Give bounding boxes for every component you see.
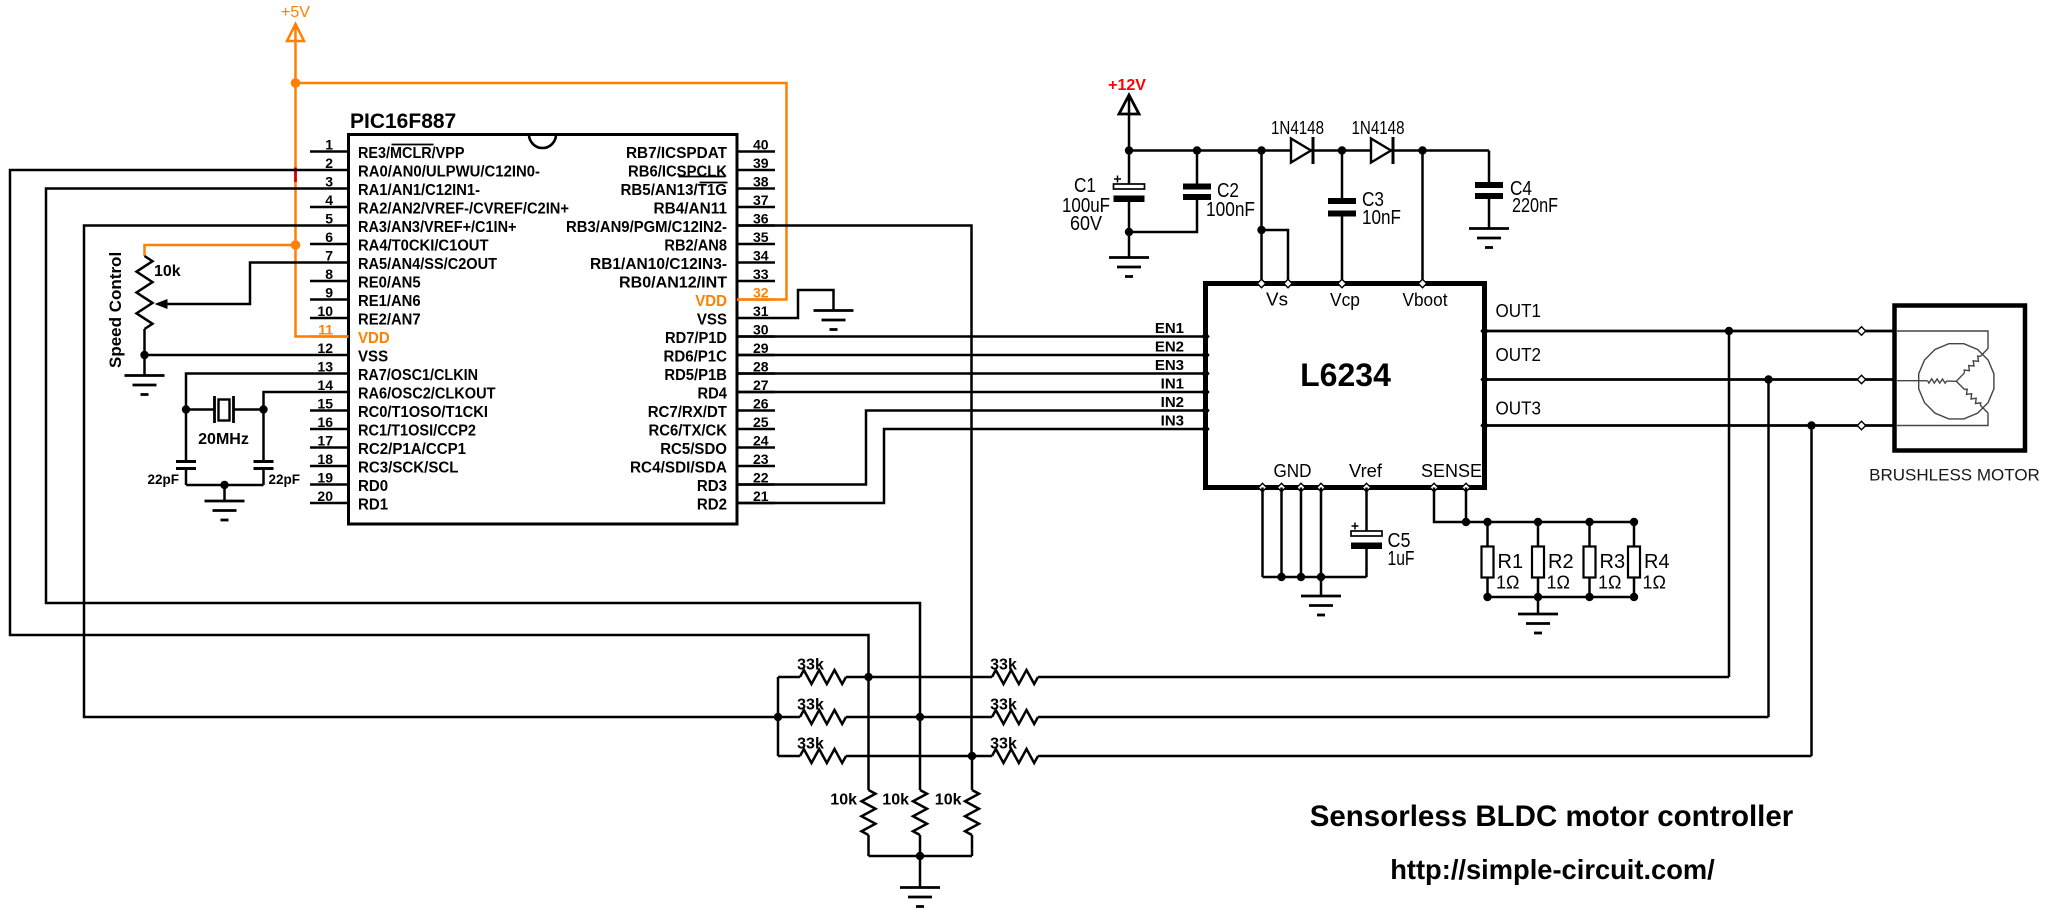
- svg-text:RC5/SDO: RC5/SDO: [660, 441, 727, 458]
- svg-text:RB3/AN9/PGM/C12IN2-: RB3/AN9/PGM/C12IN2-: [566, 219, 727, 236]
- svg-text:33k: 33k: [797, 736, 824, 753]
- svg-text:RA4/T0CKI/C1OUT: RA4/T0CKI/C1OUT: [358, 238, 489, 255]
- svg-text:1uF: 1uF: [1388, 548, 1415, 570]
- wire OSC1 pin 13: [186, 374, 310, 410]
- svg-text:+5V: +5V: [281, 4, 310, 21]
- svg-text:RB1/AN10/C12IN3-: RB1/AN10/C12IN3-: [590, 256, 727, 273]
- wire C4 bottom: [1488, 199, 1491, 229]
- wire RA1 pin3 to divider row2: [46, 189, 920, 718]
- junction rail Vcp: [1338, 146, 1346, 154]
- svg-text:33k: 33k: [990, 657, 1017, 674]
- svg-text:1Ω: 1Ω: [1547, 573, 1570, 593]
- svg-text:RC0/T1OSO/T1CKI: RC0/T1OSO/T1CKI: [358, 404, 488, 421]
- svg-text:1Ω: 1Ω: [1496, 573, 1519, 593]
- capacitor C7 22pF right: [254, 460, 274, 463]
- svg-text:RD3: RD3: [697, 478, 727, 495]
- wire SENSE pin a: [1434, 488, 1466, 523]
- svg-text:60V: 60V: [1070, 213, 1103, 235]
- svg-text:RA7/OSC1/CLKIN: RA7/OSC1/CLKIN: [358, 367, 478, 384]
- wire C1 bottom to ground: [1128, 200, 1131, 258]
- svg-text:RD6/P1C: RD6/P1C: [664, 349, 728, 366]
- svg-text:OUT1: OUT1: [1496, 301, 1542, 321]
- wire +12V rail: [1129, 149, 1489, 152]
- wire SENSE rail: [1466, 521, 1634, 524]
- wire left 22pF top: [185, 410, 188, 461]
- svg-text:19: 19: [317, 470, 333, 486]
- svg-text:100nF: 100nF: [1206, 199, 1255, 221]
- svg-text:RD1: RD1: [358, 497, 388, 514]
- wire divider common node vertical: [777, 677, 780, 756]
- junction 22pF rail: [220, 481, 228, 489]
- junction rail Vs: [1257, 146, 1265, 154]
- svg-text:11: 11: [318, 322, 333, 338]
- resistors R1 R2 R3 R4 1ohm sense: [1483, 518, 1491, 526]
- wire divider ground stem: [919, 856, 922, 888]
- wire C2 bottom link: [1129, 200, 1197, 232]
- junction GND b: [1297, 573, 1305, 581]
- wire +12V stem: [1128, 97, 1131, 151]
- svg-text:20MHz: 20MHz: [198, 431, 249, 448]
- svg-text:6: 6: [325, 229, 333, 245]
- svg-text:10nF: 10nF: [1362, 207, 1401, 229]
- svg-text:36: 36: [753, 211, 769, 227]
- svg-text:18: 18: [317, 451, 333, 467]
- svg-text:10k: 10k: [882, 792, 909, 809]
- wire +5V rail to VDD pin 32: [296, 83, 787, 300]
- capacitor C2 100nF: [1183, 187, 1211, 198]
- svg-text:5: 5: [325, 211, 333, 227]
- wire C5 bottom: [1365, 547, 1368, 577]
- wire right 22pF bottom: [262, 470, 265, 486]
- svg-text:10: 10: [317, 303, 333, 319]
- svg-text:+12V: +12V: [1108, 77, 1146, 94]
- wiper arrow of RV1: [167, 263, 310, 305]
- svg-text:22pF: 22pF: [269, 472, 301, 487]
- svg-text:RD7/P1D: RD7/P1D: [665, 330, 727, 347]
- ground C4: [1469, 229, 1509, 248]
- motor winding feed 2: [1896, 380, 1919, 382]
- svg-text:RD2: RD2: [697, 497, 727, 514]
- wires GND pins of U2: [1261, 488, 1264, 578]
- svg-text:R2: R2: [1548, 551, 1574, 573]
- ground VSS31: [814, 311, 854, 330]
- svg-text:RA5/AN4/SS/C2OUT: RA5/AN4/SS/C2OUT: [358, 256, 497, 273]
- svg-text:VSS: VSS: [697, 312, 727, 329]
- svg-text:40: 40: [753, 137, 769, 153]
- svg-text:RB5/AN13/T1G: RB5/AN13/T1G: [621, 182, 728, 199]
- svg-text:RA2/AN2/VREF-/CVREF/C2IN+: RA2/AN2/VREF-/CVREF/C2IN+: [358, 201, 569, 218]
- ground crystal: [205, 501, 245, 520]
- svg-text:Speed Control: Speed Control: [106, 252, 125, 368]
- wire OUT1: [1485, 330, 1895, 333]
- diode D1 1N4148: [1291, 137, 1313, 164]
- svg-text:33k: 33k: [990, 697, 1017, 714]
- wire Vcp bottom: [1341, 216, 1344, 284]
- svg-text:13: 13: [317, 359, 333, 375]
- svg-text:25: 25: [753, 414, 769, 430]
- junction OUT2 feedback: [1764, 375, 1772, 383]
- wire VSS pin 12 to pot bottom: [145, 354, 311, 357]
- svg-text:EN1: EN1: [1155, 320, 1184, 337]
- svg-text:33k: 33k: [990, 736, 1017, 753]
- junction C1 bottom: [1125, 228, 1133, 236]
- svg-text:RB0/AN12/INT: RB0/AN12/INT: [619, 275, 727, 292]
- svg-text:Vs: Vs: [1266, 290, 1288, 310]
- ground C1: [1109, 258, 1149, 277]
- svg-text:Vref: Vref: [1349, 461, 1383, 481]
- svg-text:RE2/AN7: RE2/AN7: [358, 312, 421, 329]
- junction SENSE: [1462, 518, 1470, 526]
- svg-text:33: 33: [753, 266, 769, 282]
- svg-text:1N4148: 1N4148: [1271, 118, 1324, 138]
- svg-text:SENSE: SENSE: [1421, 461, 1482, 481]
- wire Vs pin: [1260, 151, 1263, 284]
- svg-text:32: 32: [753, 285, 769, 301]
- pin marker diamonds U2: [1201, 332, 1209, 342]
- svg-text:OUT2: OUT2: [1496, 345, 1542, 365]
- junction rail C1: [1125, 146, 1133, 154]
- junction rail Vboot: [1418, 146, 1426, 154]
- capacitor C4 220nF: [1475, 185, 1503, 196]
- connector diamond OUT2: [1857, 375, 1865, 383]
- wire crystal right: [234, 408, 264, 411]
- svg-text:IN3: IN3: [1161, 413, 1184, 430]
- motor circle: [1919, 344, 1994, 419]
- svg-text:RC7/RX/DT: RC7/RX/DT: [648, 404, 728, 421]
- svg-text:28: 28: [753, 359, 769, 375]
- resistors 33k row1 and wires: [778, 676, 800, 679]
- op-amp U2 L6234 driver box: [1206, 284, 1485, 488]
- junction crystal left: [182, 405, 190, 413]
- wire VSS pin 31 to ground: [775, 290, 834, 318]
- svg-text:10k: 10k: [935, 792, 962, 809]
- resistors 10k pulldowns: [867, 677, 870, 790]
- svg-text:RE1/AN6: RE1/AN6: [358, 293, 421, 310]
- wire IN3 from RD2 pin21: [737, 429, 1206, 503]
- svg-text:RC6/TX/CK: RC6/TX/CK: [649, 423, 728, 440]
- pin stubs and pin numbers of U1: [310, 150, 349, 153]
- ground pot: [125, 376, 165, 395]
- svg-text:10k: 10k: [154, 263, 181, 280]
- svg-text:http://simple-circuit.com/: http://simple-circuit.com/: [1390, 854, 1715, 885]
- svg-text:22pF: 22pF: [147, 472, 179, 487]
- junction GND a: [1277, 573, 1285, 581]
- wire RA3 pin5 to divider common node: [84, 226, 778, 718]
- svg-text:33k: 33k: [797, 697, 824, 714]
- svg-text:26: 26: [753, 396, 769, 412]
- svg-text:RA1/AN1/C12IN1-: RA1/AN1/C12IN1-: [358, 182, 480, 199]
- capacitor C5 1uF: [1351, 523, 1382, 550]
- motor winding C: [1980, 405, 1988, 413]
- op-amp U1 PIC16F887 microcontroller box: [349, 135, 738, 525]
- svg-text:31: 31: [753, 303, 769, 319]
- svg-text:220nF: 220nF: [1512, 195, 1558, 217]
- resistors 33k row2 and wires: [778, 716, 800, 719]
- svg-text:37: 37: [753, 192, 769, 208]
- wire OSC2 pin 14: [264, 392, 311, 410]
- svg-text:RE3/MCLR/VPP: RE3/MCLR/VPP: [358, 145, 465, 162]
- svg-text:EN2: EN2: [1155, 339, 1184, 356]
- svg-text:15: 15: [317, 396, 333, 412]
- ground sense resistors: [1518, 614, 1558, 633]
- junction pot bottom: [140, 351, 148, 359]
- svg-text:39: 39: [753, 155, 769, 171]
- junction 10k rail: [916, 852, 924, 860]
- svg-text:38: 38: [753, 174, 769, 190]
- svg-text:10k: 10k: [830, 792, 857, 809]
- svg-text:20: 20: [317, 488, 333, 504]
- svg-text:1: 1: [325, 137, 333, 153]
- wire C1 top: [1128, 151, 1131, 185]
- wire Vcp top: [1341, 151, 1344, 199]
- wire EN2 from RD6 pin29: [737, 354, 1206, 357]
- svg-text:29: 29: [753, 340, 769, 356]
- svg-text:RC3/SCK/SCL: RC3/SCK/SCL: [358, 460, 459, 477]
- wire OUT3 feedback riser: [1810, 426, 1813, 757]
- wire rail to ground: [223, 485, 226, 501]
- wire crystal left: [186, 408, 215, 411]
- svg-text:BRUSHLESS MOTOR: BRUSHLESS MOTOR: [1869, 466, 2040, 485]
- svg-text:RB7/ICSPDAT: RB7/ICSPDAT: [626, 145, 727, 162]
- wire SENSE pin b: [1465, 488, 1468, 523]
- svg-text:RC1/T1OSI/CCP2: RC1/T1OSI/CCP2: [358, 423, 476, 440]
- wire EN1 from RD7 pin30: [737, 335, 1206, 338]
- motor M1 box: [1895, 306, 2026, 451]
- wire IN2 from RD3 pin22: [737, 411, 1206, 485]
- junction common node: [774, 713, 782, 721]
- ground divider: [900, 888, 940, 907]
- wire left 22pF bottom: [185, 470, 188, 486]
- svg-text:3: 3: [325, 174, 333, 190]
- wire RB3 pin36 to divider row3: [737, 226, 972, 757]
- svg-text:R4: R4: [1644, 551, 1670, 573]
- svg-text:9: 9: [325, 285, 333, 301]
- junction OUT3 feedback: [1807, 421, 1815, 429]
- wire OUT2: [1485, 378, 1895, 381]
- svg-text:RA6/OSC2/CLKOUT: RA6/OSC2/CLKOUT: [358, 386, 496, 403]
- svg-text:RA0/AN0/ULPWU/C12IN0-: RA0/AN0/ULPWU/C12IN0-: [358, 164, 540, 181]
- capacitor C6 22pF left: [176, 460, 196, 463]
- motor winding feed 3: [1896, 413, 1988, 426]
- svg-text:RB6/ICSPCLK: RB6/ICSPCLK: [628, 164, 727, 181]
- svg-text:GND: GND: [1274, 461, 1312, 481]
- wire sense ground stem: [1537, 597, 1540, 614]
- diode D2 1N4148: [1371, 137, 1393, 164]
- svg-text:24: 24: [753, 433, 769, 449]
- svg-text:IN1: IN1: [1161, 376, 1184, 393]
- svg-text:C1: C1: [1074, 175, 1096, 197]
- junction GND c: [1317, 573, 1325, 581]
- wire Vs second pin: [1262, 230, 1289, 284]
- crystal X1 20MHz: [213, 396, 216, 423]
- junction rail C2: [1193, 146, 1201, 154]
- svg-text:4: 4: [325, 192, 333, 208]
- svg-text:35: 35: [753, 229, 769, 245]
- svg-text:23: 23: [753, 451, 769, 467]
- svg-text:VDD: VDD: [695, 293, 727, 310]
- svg-text:OUT3: OUT3: [1496, 399, 1542, 419]
- svg-text:17: 17: [317, 433, 333, 449]
- svg-text:22: 22: [753, 470, 769, 486]
- connector diamond OUT1: [1857, 327, 1865, 335]
- ground L6234: [1301, 596, 1341, 615]
- svg-text:21: 21: [753, 488, 769, 504]
- motor winding B: [1919, 380, 1928, 382]
- svg-text:30: 30: [753, 322, 769, 338]
- capacitor C3 10nF: [1328, 201, 1356, 214]
- svg-text:VDD: VDD: [358, 330, 390, 347]
- svg-text:PIC16F887: PIC16F887: [350, 110, 456, 133]
- wire OUT1 feedback riser: [1728, 331, 1731, 677]
- svg-text:Vcp: Vcp: [1330, 290, 1360, 310]
- svg-text:RC4/SDI/SDA: RC4/SDI/SDA: [630, 460, 727, 477]
- potentiometer RV1 10k body: [137, 256, 153, 329]
- svg-text:R3: R3: [1600, 551, 1626, 573]
- svg-text:RA3/AN3/VREF+/C1IN+: RA3/AN3/VREF+/C1IN+: [358, 219, 517, 236]
- wire EN3 from RD5 pin28: [737, 372, 1206, 375]
- svg-text:L6234: L6234: [1300, 357, 1391, 393]
- capacitor C1 100uF: [1114, 176, 1145, 203]
- svg-text:IN2: IN2: [1161, 394, 1184, 411]
- junction Vs: [1257, 226, 1265, 234]
- motor winding feed 1: [1896, 331, 1988, 349]
- motor winding A: [1980, 349, 1988, 357]
- wire C4 top: [1488, 151, 1491, 183]
- svg-text:8: 8: [325, 266, 333, 282]
- wire pot bottom: [143, 329, 146, 376]
- svg-text:16: 16: [317, 414, 333, 430]
- wire +5V to potentiometer top: [145, 245, 296, 256]
- svg-text:2: 2: [325, 155, 333, 171]
- wire OUT3: [1485, 424, 1895, 427]
- junction crystal right: [259, 405, 267, 413]
- svg-text:27: 27: [753, 377, 769, 393]
- svg-text:R1: R1: [1498, 551, 1524, 573]
- svg-text:14: 14: [317, 377, 333, 393]
- svg-text:RD4: RD4: [698, 386, 728, 403]
- wire OUT2 feedback riser: [1767, 380, 1770, 718]
- svg-text:Sensorless BLDC motor controll: Sensorless BLDC motor controller: [1310, 800, 1794, 833]
- wire GND rail ground stem: [1320, 577, 1323, 596]
- svg-text:7: 7: [325, 248, 333, 264]
- svg-text:RD5/P1B: RD5/P1B: [664, 367, 727, 384]
- red overlap mark on +5V wire: [294, 168, 297, 183]
- svg-text:33k: 33k: [797, 657, 824, 674]
- junction OUT1 feedback: [1725, 327, 1733, 335]
- svg-text:34: 34: [753, 248, 769, 264]
- svg-text:RE0/AN5: RE0/AN5: [358, 275, 421, 292]
- svg-text:Vboot: Vboot: [1403, 290, 1448, 310]
- svg-text:RB2/AN8: RB2/AN8: [664, 238, 727, 255]
- svg-text:RC2/P1A/CCP1: RC2/P1A/CCP1: [358, 441, 466, 458]
- svg-text:RB4/AN11: RB4/AN11: [654, 201, 728, 218]
- svg-text:1N4148: 1N4148: [1352, 118, 1405, 138]
- wire sense resistor bottom rail: [1488, 596, 1635, 599]
- svg-text:RD0: RD0: [358, 478, 388, 495]
- wire RA0 pin2 to divider row1: [10, 170, 869, 677]
- junction top +5V: [291, 78, 301, 88]
- wire right 22pF top: [262, 410, 265, 461]
- resistors 33k row3 and wires: [778, 755, 800, 758]
- svg-text:EN3: EN3: [1155, 357, 1184, 374]
- svg-text:12: 12: [317, 340, 333, 356]
- svg-text:VSS: VSS: [358, 349, 388, 366]
- svg-text:1Ω: 1Ω: [1643, 573, 1666, 593]
- wire IN1 from RD4 pin27: [737, 391, 1206, 394]
- svg-text:1Ω: 1Ω: [1598, 573, 1621, 593]
- wire 22pF ground rail: [186, 484, 264, 487]
- wire Vref pin: [1365, 488, 1368, 532]
- wire +5V vertical to VDD pin 11: [296, 24, 349, 337]
- wire Vboot pin: [1421, 151, 1424, 284]
- junction +5V pot tap: [291, 240, 301, 250]
- wire 10k bottom rail: [869, 855, 973, 858]
- wire C2 top: [1196, 151, 1199, 185]
- connector diamond OUT3: [1857, 421, 1865, 429]
